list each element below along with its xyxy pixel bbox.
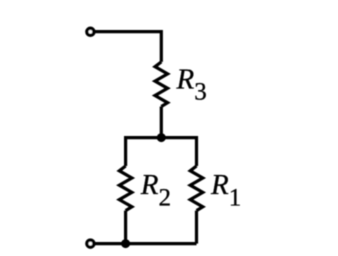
terminal top-left (open circle)	[87, 28, 94, 35]
svg-text:R2: R2	[140, 169, 171, 211]
wire bottom rail	[94, 242, 197, 245]
node A (junction dot)	[157, 133, 166, 142]
wire left branch lower	[124, 211, 127, 244]
svg-text:R3: R3	[176, 63, 207, 105]
wire from top terminal to top of R3	[94, 32, 161, 62]
resistor R2	[119, 166, 132, 211]
terminal bottom-left (open circle)	[87, 240, 94, 247]
wire parallel-branch top rail	[126, 138, 197, 166]
wire from R3 to node A	[160, 107, 163, 138]
node B (junction dot bottom)	[121, 239, 130, 248]
resistor R1	[190, 166, 203, 211]
wire right branch lower	[195, 211, 198, 244]
svg-text:R1: R1	[210, 169, 241, 211]
resistor R3	[155, 62, 168, 107]
